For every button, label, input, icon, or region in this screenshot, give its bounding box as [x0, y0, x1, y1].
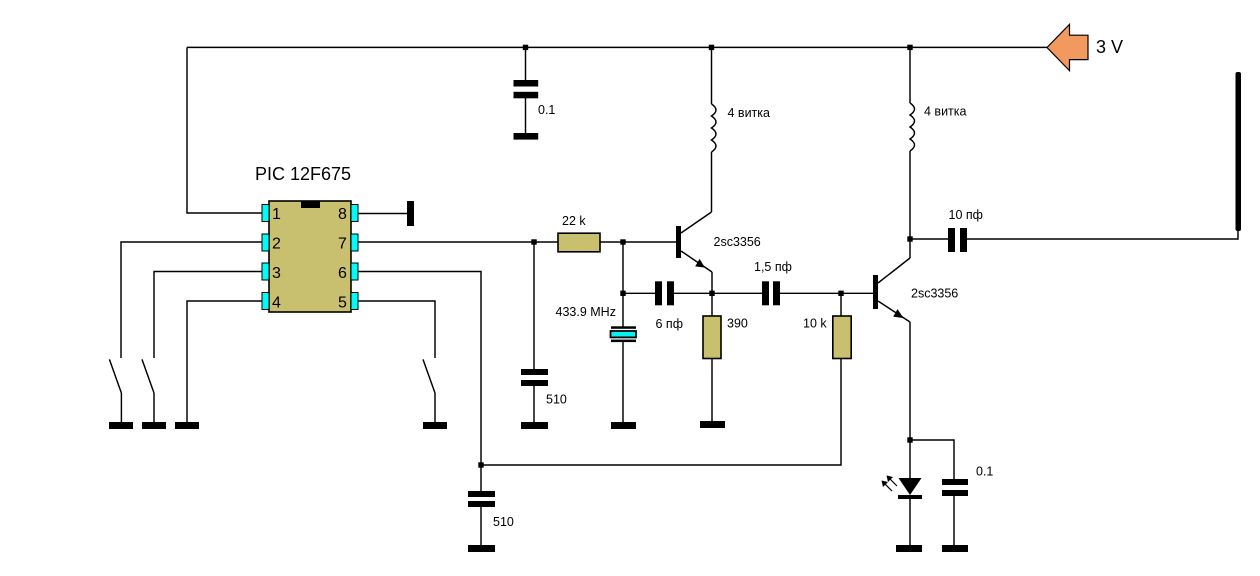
- wire pin6 down to bottom bus: [358, 272, 481, 466]
- svg-text:6: 6: [338, 265, 347, 282]
- ground S1: [109, 422, 133, 429]
- antenna: [1236, 72, 1242, 231]
- IC U1 PIC 12F675 body: [269, 201, 351, 312]
- node junction emitter2-LED: [907, 437, 912, 442]
- wire bus to C510b: [480, 465, 482, 491]
- wire R2 390 to ground: [711, 359, 713, 421]
- terminal bar at pin8: [407, 201, 414, 226]
- svg-text:10 k: 10 k: [803, 317, 827, 331]
- svg-text:5: 5: [338, 295, 347, 312]
- pin 5: [351, 293, 358, 310]
- wire LED to ground: [909, 499, 911, 545]
- wire R1 to Q1 base: [598, 241, 676, 243]
- wire bottom bus to 10k: [481, 359, 841, 465]
- resistor R3 10k body: [833, 316, 851, 359]
- pin 6: [351, 263, 358, 280]
- wire pin4 to ground: [187, 301, 262, 422]
- svg-text:2: 2: [272, 236, 281, 253]
- transistor Q2 collector lead: [878, 258, 910, 283]
- crystal X1 body: [611, 326, 637, 342]
- ground C510b: [468, 545, 495, 552]
- ground LED: [896, 545, 922, 552]
- wire C 1.5pf to Q2 base: [780, 292, 873, 294]
- wire pin1 to rail: [187, 47, 262, 213]
- capacitor C4 0.1 plate top: [942, 479, 968, 485]
- LED emission arrow 2: [882, 481, 893, 492]
- capacitor C1 0.1 plate top: [514, 80, 539, 87]
- node junction L2-C10pf: [907, 236, 912, 241]
- svg-text:2sc3356: 2sc3356: [714, 235, 761, 249]
- wire S1 to ground: [120, 393, 122, 422]
- svg-text:0.1: 0.1: [976, 465, 993, 479]
- capacitor C 10pf plate left: [948, 228, 955, 252]
- svg-text:433.9 MHz: 433.9 MHz: [556, 305, 616, 319]
- capacitor C510a plate bottom: [521, 380, 548, 386]
- pin 8: [351, 205, 358, 222]
- capacitor C 6pf plate left: [655, 281, 662, 305]
- wire C1 bottom lead: [525, 98, 527, 133]
- svg-text:390: 390: [727, 317, 748, 331]
- wire C 1.5pf node to R3 10k: [840, 293, 842, 316]
- capacitor C 6pf plate right: [667, 281, 674, 305]
- node junction pin6-bus: [478, 462, 483, 467]
- capacitor C 1.5pf plate left: [762, 281, 769, 305]
- svg-text:4 витка: 4 витка: [924, 105, 967, 119]
- capacitor C 1.5pf plate right: [773, 281, 780, 305]
- capacitor C510b plate bottom: [468, 501, 495, 507]
- wire node to LED: [909, 440, 911, 478]
- resistor R2 390 body: [703, 316, 721, 359]
- svg-text:1: 1: [272, 206, 281, 223]
- transistor Q1 base bar: [676, 226, 681, 258]
- wire node to C 6pf: [623, 292, 655, 294]
- svg-text:22 k: 22 k: [562, 214, 586, 228]
- IC pins: [262, 205, 358, 310]
- node junction pin7-C510a: [531, 239, 536, 244]
- wire C 6pf to node emitter: [674, 292, 762, 294]
- ground S2: [142, 422, 166, 429]
- transistor Q1 emitter lead: [681, 251, 712, 272]
- svg-text:3 V: 3 V: [1096, 37, 1123, 57]
- wire L1 to Q1 collector: [711, 152, 713, 212]
- wire node to crystal: [622, 242, 624, 327]
- ground C510a: [521, 422, 548, 429]
- wire Q1 emitter to node: [711, 272, 713, 293]
- transistor Q1 emitter arrow: [695, 259, 705, 268]
- node junction C1.5pf-R10k: [838, 291, 843, 296]
- wire pin7 to R1: [358, 241, 558, 243]
- wire C4 0.1 to ground: [953, 496, 955, 545]
- wire C510a top lead: [533, 242, 535, 369]
- switch S3 arm: [423, 359, 435, 393]
- ground S3: [423, 422, 447, 429]
- wire node to C4 0.1: [910, 440, 954, 479]
- LED D1 triangle: [899, 478, 922, 495]
- wire Q2 emitter down: [909, 322, 911, 440]
- pin 2: [262, 234, 269, 251]
- svg-text:1,5 пф: 1,5 пф: [754, 260, 792, 274]
- wire pin2 to switch S1: [121, 242, 262, 358]
- ground pin4: [175, 422, 199, 429]
- transistor Q1 collector lead: [681, 212, 712, 233]
- node junction base-crystal: [620, 239, 625, 244]
- wire pin3 to switch S2: [154, 272, 262, 359]
- wire L1 top lead: [711, 47, 713, 104]
- pin 7: [351, 234, 358, 251]
- wire crystal to ground: [622, 342, 624, 422]
- svg-text:10 пф: 10 пф: [949, 208, 983, 222]
- node junction crystal-C6pf: [620, 291, 625, 296]
- resistor R1 22k body: [558, 233, 600, 252]
- wire C510a bottom lead: [533, 386, 535, 422]
- wire node to C 10pf: [910, 238, 948, 240]
- wire S2 to ground: [153, 393, 155, 422]
- node junction rail-C1: [523, 45, 528, 50]
- node junction emitter-R390: [709, 291, 714, 296]
- transistor Q2 emitter lead: [878, 301, 910, 322]
- svg-text:4 витка: 4 витка: [728, 106, 771, 120]
- transistor Q2 base bar: [873, 275, 878, 309]
- capacitor C510a plate top: [521, 369, 548, 375]
- switch S1 arm: [109, 359, 121, 393]
- transistor Q2 emitter arrow: [893, 309, 903, 318]
- inductor L1 4 витка: [712, 104, 717, 152]
- svg-text:4: 4: [272, 295, 281, 312]
- wire C510b to ground: [480, 507, 482, 545]
- ground below C1: [514, 133, 539, 140]
- ground crystal: [611, 422, 636, 429]
- power arrow 3V: [1047, 24, 1088, 70]
- capacitor C510b plate top: [468, 491, 495, 497]
- wire C 10pf to antenna: [967, 231, 1238, 239]
- svg-text:8: 8: [338, 206, 347, 223]
- svg-text:510: 510: [493, 515, 514, 529]
- wire S3 to ground: [434, 393, 436, 422]
- ground C4: [942, 545, 968, 552]
- wire pin8 to terminal: [358, 213, 407, 215]
- ground R2 390: [700, 421, 725, 428]
- wire R2 390 top lead: [711, 293, 713, 316]
- svg-text:6 пф: 6 пф: [656, 317, 683, 331]
- wire power rail 3V: [187, 46, 1047, 48]
- capacitor C 10pf plate right: [960, 228, 967, 252]
- wire L2 to Q2 collector: [909, 151, 911, 258]
- pin 3: [262, 263, 269, 280]
- svg-text:510: 510: [546, 393, 567, 407]
- switch S2 arm: [142, 359, 154, 393]
- svg-text:2sc3356: 2sc3356: [911, 287, 958, 301]
- svg-text:PIC 12F675: PIC 12F675: [255, 164, 351, 184]
- capacitor C4 0.1 plate bottom: [942, 490, 968, 496]
- wire pin5 to switch S3: [358, 301, 435, 358]
- svg-text:0.1: 0.1: [538, 103, 555, 117]
- svg-text:7: 7: [338, 236, 347, 253]
- IC notch: [301, 201, 320, 208]
- pin 4: [262, 293, 269, 310]
- svg-text:3: 3: [272, 265, 281, 282]
- pin 1: [262, 205, 269, 222]
- LED emission arrow 1: [887, 476, 898, 487]
- node junction rail-L1: [709, 45, 714, 50]
- inductor L2 4 витка: [910, 103, 915, 151]
- wire L2 top lead: [909, 47, 911, 103]
- capacitor C1 0.1 plate bottom: [514, 92, 539, 99]
- wire C1 top lead: [525, 47, 527, 80]
- node junction rail-L2: [907, 45, 912, 50]
- LED D1 cathode bar: [898, 495, 922, 499]
